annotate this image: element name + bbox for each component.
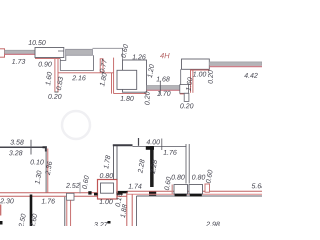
red line to big rect: [114, 93, 147, 95]
label 1.60 rotated: [45, 72, 52, 86]
room A outline: [60, 55, 93, 70]
window rect B: [189, 185, 203, 195]
big rect with inner rect: [123, 60, 147, 92]
red line under junction: [180, 93, 186, 95]
label 1.88 rotated: [120, 204, 127, 218]
red line under rect4: [191, 69, 210, 71]
label 0.10: [30, 160, 43, 165]
label 0.20 rotated: [145, 92, 150, 105]
red line under band3: [147, 89, 180, 91]
inner dark line right part: [137, 195, 263, 197]
label 0.60 rotated: [121, 44, 129, 58]
label 2.60 rotated: [30, 213, 38, 227]
label 0.60 rotated: [82, 175, 89, 189]
wall vline x180.7: [180, 69, 182, 85]
label 1.00: [193, 72, 206, 77]
label 1.60 rotated: [186, 77, 193, 91]
label 1.80 rotated: [99, 72, 107, 86]
label 3.58: [10, 140, 23, 145]
label 2.52: [66, 183, 80, 188]
window rect A: [174, 185, 188, 195]
label 0.80 c: [171, 175, 184, 180]
label 4H red: [160, 53, 170, 58]
wall column left: [0, 49, 5, 57]
black dot tick: [108, 221, 111, 224]
label 1.30 rotated: [35, 170, 42, 184]
label 0.80: [100, 173, 113, 178]
white wall rect 4: [182, 59, 210, 69]
dim line B: [133, 146, 187, 148]
corner thick: [43, 147, 46, 151]
wall gray band 4: [209, 62, 262, 65]
label 0.60 rotated f: [206, 169, 213, 183]
label 0.20: [48, 94, 61, 99]
wall vE double: [185, 144, 187, 184]
black wall vD: [150, 146, 154, 187]
black dim vline: [30, 195, 33, 227]
label 1.74: [128, 184, 141, 189]
red line under room A: [58, 72, 113, 74]
tick x31: [30, 140, 32, 155]
label 4.00: [146, 139, 160, 144]
outer red wall right part: [127, 190, 262, 192]
tick line: [79, 182, 81, 194]
label 1.76 b: [163, 150, 176, 155]
red edge under band1: [5, 53, 36, 55]
red line under band4: [209, 66, 262, 68]
red wall left edge bits: [0, 205, 2, 216]
label 1.26: [132, 54, 145, 59]
outer red wall left part: [0, 192, 98, 194]
black tick on wall: [88, 191, 91, 194]
window B sill black: [190, 194, 202, 197]
label 3.28: [9, 150, 22, 155]
inner room vline: [136, 196, 138, 226]
label 1.00 b: [99, 199, 112, 204]
label 0.16 rotated: [115, 193, 122, 207]
dim line A: [0, 146, 46, 148]
label 10.50: [28, 40, 45, 45]
label 5.68: [252, 183, 265, 188]
wall top line to x121.7: [93, 48, 123, 60]
red jamb left: [171, 185, 173, 195]
label 2.28 rotated b: [150, 159, 157, 173]
label 0.80 d: [192, 175, 205, 180]
wall gray band 3: [147, 86, 180, 90]
red jamb: [205, 184, 210, 192]
red wall step top: [99, 59, 101, 73]
label 2.36 rotated: [45, 161, 52, 175]
label 2.28 rotated: [137, 159, 144, 173]
label 2.98: [206, 222, 220, 227]
label 0.77 rotated: [99, 59, 107, 73]
label 1.78 rotated: [103, 155, 110, 169]
wall vB double: [45, 147, 47, 193]
label 1.76: [42, 199, 55, 204]
tick B2: [161, 139, 163, 151]
wall vC lintel: [113, 144, 133, 146]
black tick left of box: [94, 193, 98, 196]
small inner line: [58, 50, 64, 52]
wall dark vline left: [64, 197, 66, 226]
label 0.90: [38, 62, 51, 67]
shaft inner rect: [101, 183, 114, 193]
watermark circle: [62, 111, 90, 139]
tab rect: [184, 93, 189, 101]
label 0.83 rotated: [56, 77, 63, 91]
label 0.20 rotated: [208, 70, 213, 83]
label 0.60 rotated e: [164, 176, 171, 190]
red wall vertical bottom: [126, 193, 128, 227]
red wall vertical descending: [66, 200, 68, 226]
junction rect: [180, 85, 189, 94]
label 1.70: [157, 91, 170, 96]
wall vC double: [113, 145, 115, 179]
red shaft box: [98, 180, 118, 200]
red wall vertical 2: [111, 73, 113, 94]
label 1.80 horizontal: [120, 96, 133, 101]
label 2.16: [72, 75, 86, 80]
label 1.20 rotated: [147, 64, 154, 78]
red wall vertical 1: [54, 59, 56, 92]
red line under rect1: [35, 58, 60, 60]
wall gray band 2: [66, 49, 93, 55]
wall gray band 1: [5, 50, 36, 53]
label 2.30: [0, 198, 14, 203]
red jog from box to right wall: [117, 192, 127, 194]
wall junction box: [67, 193, 75, 200]
label 3.27: [94, 222, 108, 227]
white wall rect 1: [35, 48, 64, 58]
label 2.50 rotated: [18, 213, 26, 227]
black tick right of box: [117, 192, 123, 195]
label 4.42: [244, 73, 257, 78]
tick on band3: [159, 81, 161, 95]
label 0.20 h: [180, 103, 193, 108]
label 1.73: [12, 59, 25, 64]
tick B1: [138, 138, 140, 146]
red wall vertical 3: [190, 69, 192, 92]
label 1.68: [156, 77, 169, 82]
black zigzag ticks left of red vertical: [118, 191, 128, 193]
window A sill black: [175, 194, 187, 197]
